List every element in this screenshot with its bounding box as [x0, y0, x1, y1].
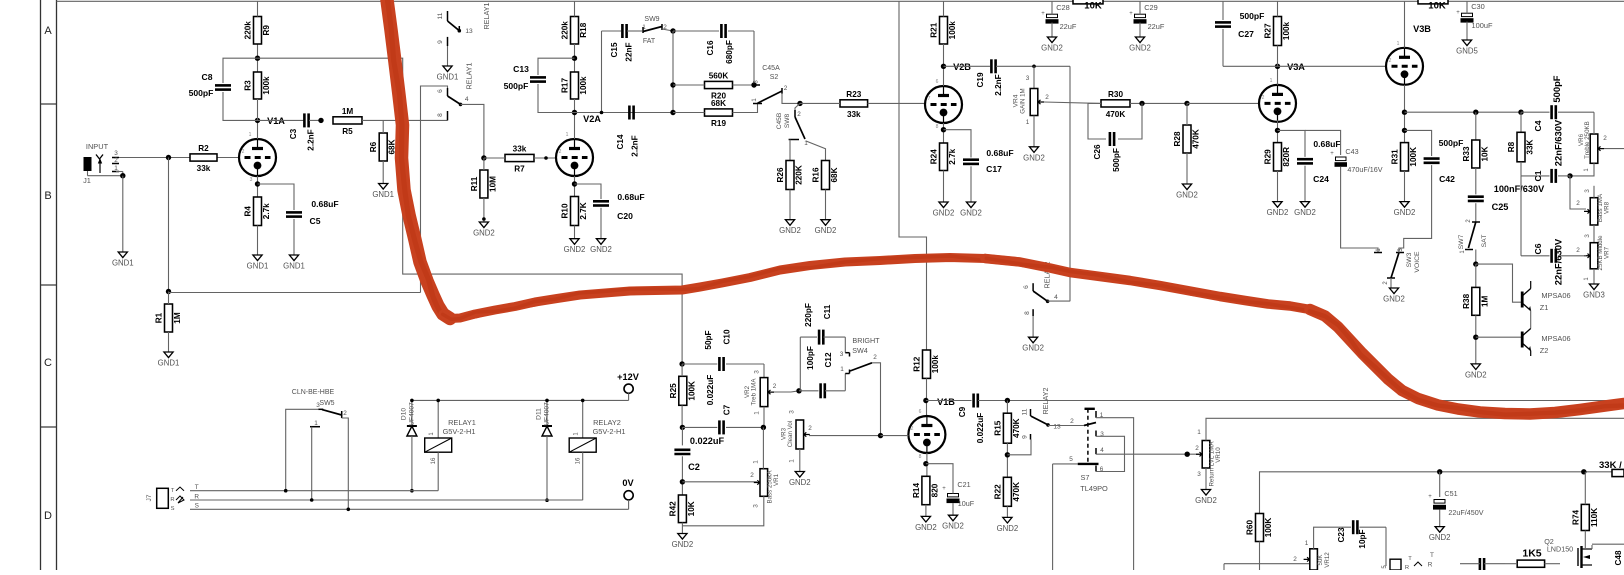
ground GND2 (R26) — [779, 220, 801, 236]
svg-text:0.68uF: 0.68uF — [986, 148, 1013, 158]
svg-text:VR10: VR10 — [1215, 447, 1222, 463]
ground GND3 (VR7) — [1583, 284, 1605, 300]
svg-text:500pF: 500pF — [1551, 75, 1562, 102]
svg-text:R74: R74 — [1571, 509, 1580, 524]
svg-text:10K: 10K — [1428, 1, 1446, 12]
wire C24 branch — [1278, 130, 1306, 157]
capacitor C7 0.022uF — [706, 375, 732, 435]
wire C42 down to SW3 — [1399, 165, 1432, 252]
svg-text:R1: R1 — [155, 312, 164, 323]
wire D11 top — [545, 399, 549, 426]
svg-text:R7: R7 — [514, 165, 525, 174]
wire R4 node — [257, 176, 259, 197]
svg-text:33k: 33k — [513, 145, 527, 154]
wire R17 bottom — [574, 99, 576, 113]
svg-text:J1: J1 — [83, 176, 91, 185]
row label D — [44, 510, 52, 522]
ground GND2 (R24) — [933, 202, 955, 218]
wire C13 bottom — [538, 84, 575, 113]
label RELAY1 (lower) — [465, 62, 474, 89]
ground GND1 (C5) — [283, 255, 305, 271]
ground GND2 (R14) — [915, 516, 937, 532]
svg-text:9: 9 — [437, 40, 444, 44]
resistor R22 470K — [993, 477, 1021, 506]
svg-text:GND1: GND1 — [247, 262, 269, 271]
svg-text:R29: R29 — [1264, 149, 1273, 164]
svg-text:16: 16 — [431, 457, 437, 464]
svg-text:C15: C15 — [610, 42, 619, 57]
svg-text:GND2: GND2 — [1267, 208, 1289, 217]
wire C25 to SW7 — [1475, 203, 1477, 222]
capacitor C16 680pF — [706, 24, 734, 64]
svg-text:Z2: Z2 — [1540, 346, 1549, 355]
svg-text:T: T — [1430, 552, 1434, 559]
capacitor C5 0.68uF — [286, 199, 339, 226]
junction V2B plate node — [941, 64, 946, 69]
svg-text:GND2: GND2 — [1041, 44, 1063, 53]
svg-text:GND2: GND2 — [1294, 208, 1316, 217]
svg-text:2: 2 — [1576, 200, 1580, 207]
junction R28 top — [1184, 101, 1189, 106]
svg-text:2: 2 — [1262, 95, 1265, 101]
junction V3B cath low — [1402, 128, 1407, 133]
wire FAT top line — [602, 30, 622, 32]
svg-text:2: 2 — [343, 410, 347, 417]
ground GND2 (relay2 pin8) — [1022, 337, 1044, 353]
ground GND1 (R4) — [247, 255, 269, 271]
svg-text:100k: 100k — [262, 76, 271, 95]
svg-text:10pF: 10pF — [1358, 529, 1367, 548]
svg-text:R33: R33 — [1462, 146, 1471, 161]
junction SW9 out — [670, 28, 675, 33]
svg-text:R31: R31 — [1391, 149, 1400, 164]
svg-text:3: 3 — [250, 177, 253, 183]
svg-text:16: 16 — [576, 457, 582, 464]
svg-text:1M: 1M — [342, 107, 354, 116]
svg-text:2: 2 — [773, 383, 777, 390]
wire R29 to gnd — [1277, 171, 1279, 202]
svg-text:SW5: SW5 — [319, 400, 334, 407]
switch SW3 VOICE — [1374, 248, 1421, 285]
wire VR3 wiper line — [809, 435, 881, 437]
svg-text:VR1: VR1 — [773, 473, 780, 486]
wire VR10 pin1 up — [1206, 418, 1624, 440]
wire R9 to rail — [257, 1, 259, 16]
junction R15/R22 — [1005, 452, 1010, 457]
tube V3B triode — [1386, 48, 1423, 85]
capacitor C42 500pF — [1424, 138, 1464, 184]
switch RELAY2 contact 6/4 — [1023, 283, 1070, 303]
transistor Z1 MPSA06 — [1522, 281, 1570, 312]
wire input node down — [168, 158, 170, 292]
svg-text:SW3: SW3 — [1406, 252, 1413, 267]
wire relay1 pin4 out — [461, 104, 484, 158]
svg-text:GND2: GND2 — [942, 522, 964, 531]
svg-text:J7: J7 — [146, 494, 153, 501]
svg-text:0V: 0V — [622, 478, 634, 488]
svg-text:SW9: SW9 — [644, 16, 659, 23]
wire bypass bottom run — [169, 292, 421, 294]
svg-text:CLN-BE-HBE: CLN-BE-HBE — [292, 389, 335, 396]
svg-text:1: 1 — [753, 460, 760, 464]
svg-text:T: T — [195, 484, 199, 491]
svg-text:4: 4 — [1054, 294, 1058, 301]
label V1B — [937, 397, 955, 407]
svg-text:UF4007: UF4007 — [409, 402, 416, 426]
svg-text:C21: C21 — [957, 480, 970, 489]
resistor R20 560K/R20 — [705, 72, 733, 101]
ground GND2 (C24) — [1294, 202, 1316, 218]
svg-text:110K: 110K — [1590, 508, 1599, 527]
wire C2 branch — [681, 427, 683, 445]
svg-text:R15: R15 — [993, 420, 1002, 435]
svg-text:S7: S7 — [1080, 473, 1089, 482]
label V2B pins — [928, 79, 939, 130]
label R70 (partial, bottom edge) — [1521, 569, 1540, 575]
svg-text:2: 2 — [242, 149, 245, 155]
switch SW9 FAT — [642, 16, 673, 45]
svg-text:11: 11 — [437, 12, 444, 19]
wire VR3 to gnd — [799, 449, 801, 472]
svg-text:VR8: VR8 — [1604, 201, 1611, 214]
svg-text:GND2: GND2 — [933, 209, 955, 218]
svg-text:10K: 10K — [687, 501, 696, 516]
svg-text:470K: 470K — [1012, 482, 1021, 502]
capacitor C17 0.68uF — [963, 148, 1014, 174]
ground GND2 (VR4) — [1023, 147, 1045, 163]
capacitor C13 500pF — [504, 64, 546, 91]
wire input signal — [119, 157, 239, 159]
svg-text:5: 5 — [1069, 456, 1073, 463]
svg-text:11: 11 — [1022, 408, 1029, 415]
border row separator B/C — [41, 284, 57, 286]
svg-text:R25: R25 — [669, 383, 678, 398]
junction R30 out — [1139, 101, 1144, 106]
svg-text:500pF: 500pF — [1240, 11, 1265, 21]
svg-text:560K: 560K — [709, 72, 729, 81]
tube V2A triode — [556, 139, 593, 176]
ground GND2 (SW3) — [1383, 288, 1405, 304]
label RELAY2 (upper) — [1041, 387, 1050, 414]
ground GND1 (R1) — [158, 352, 180, 368]
junction R11 bottom — [482, 217, 486, 221]
wire R74 leads — [1584, 472, 1586, 545]
potentiometer VR4 GAIN 1M — [1013, 75, 1050, 126]
connector J5 jack (bottom) — [1382, 552, 1434, 571]
svg-text:+: + — [1041, 11, 1045, 17]
resistor R11 10M — [470, 170, 498, 198]
junction R25 bottom — [680, 425, 685, 430]
svg-text:C17: C17 — [986, 164, 1002, 174]
svg-text:220k: 220k — [244, 21, 253, 40]
switch SW5 CLN-BE-HBE — [292, 389, 347, 427]
svg-text:100uF: 100uF — [1472, 21, 1493, 30]
svg-text:GND2: GND2 — [1022, 344, 1044, 353]
wire V3A anode line — [1223, 65, 1386, 67]
resistor R18 220k — [561, 17, 589, 45]
junction tone mid node — [1567, 173, 1572, 178]
wire R11 leads — [483, 158, 485, 222]
svg-text:100k: 100k — [1282, 21, 1291, 40]
svg-text:B: B — [44, 190, 51, 202]
svg-text:C20: C20 — [617, 211, 633, 221]
svg-text:C8: C8 — [202, 72, 213, 82]
wire R31 to gnd — [1404, 171, 1406, 202]
capacitor C26 500pF — [1093, 132, 1121, 172]
switch RELAY2 pin 8 — [1024, 309, 1033, 337]
wire R5 to relay pin8 — [362, 119, 448, 121]
wire coil2 bottom — [582, 452, 584, 500]
wire VR2 top — [754, 364, 765, 378]
svg-text:D: D — [44, 510, 52, 522]
wire B+ rail — [57, 0, 1624, 2]
capacitor C6 22nF/630V — [1533, 238, 1564, 285]
svg-text:D10: D10 — [401, 408, 408, 420]
resistor R24 2.7k — [930, 143, 958, 171]
switch RELAY1 pin 8 — [437, 111, 448, 120]
wire C3 to R5 — [309, 119, 321, 121]
wire +12V rail — [412, 393, 629, 400]
border frame left outer line — [40, 0, 42, 570]
diode D10 UF4007 — [401, 402, 417, 436]
svg-text:2: 2 — [750, 472, 754, 479]
junction V2A grid — [544, 156, 548, 160]
resistor R4 2.7k — [244, 197, 272, 226]
capacitor C10 50pF — [704, 329, 732, 371]
svg-text:C3: C3 — [289, 128, 298, 139]
svg-text:33K /: 33K / — [1599, 460, 1622, 471]
wire coil1 bottom — [437, 452, 439, 491]
ground GND2 (VR10) — [1195, 490, 1217, 506]
svg-text:0.68uF: 0.68uF — [1313, 139, 1340, 149]
junction V2A plate node — [572, 110, 577, 115]
border row separator A/B — [41, 103, 57, 105]
potentiometer VR10 Return LVL 1MA — [1195, 429, 1222, 487]
wire SW3 to gnd — [1390, 278, 1392, 288]
switch SW8 C45B — [776, 103, 826, 160]
svg-text:R60: R60 — [1246, 520, 1255, 535]
capacitor C30 100uF — [1456, 1, 1493, 40]
svg-text:8: 8 — [437, 113, 444, 117]
wire to Z2 base — [1476, 336, 1521, 338]
junction pin4 line — [1185, 452, 1190, 457]
label V1A pins — [242, 132, 253, 183]
svg-text:GND2: GND2 — [1023, 153, 1045, 162]
resistor R19 68K/R19 — [705, 99, 733, 128]
junction input/R1 — [166, 155, 171, 160]
svg-text:GND1: GND1 — [112, 259, 134, 268]
svg-text:GND2: GND2 — [1429, 533, 1451, 542]
potentiometer VR7 25KB Middle — [1584, 235, 1611, 271]
svg-text:10uF: 10uF — [958, 499, 975, 508]
label C1 rating — [1553, 119, 1564, 166]
svg-text:+12V: +12V — [617, 372, 640, 382]
svg-text:GND2: GND2 — [590, 245, 612, 254]
svg-text:100K: 100K — [687, 381, 696, 401]
wire R38 bottom — [1475, 315, 1477, 364]
wire C11 right — [824, 337, 846, 353]
wire R33 lead — [1475, 112, 1477, 140]
svg-text:C10: C10 — [723, 329, 732, 344]
capacitor C11 220pF — [804, 303, 832, 344]
svg-text:R28: R28 — [1173, 131, 1182, 146]
wire C19 out — [996, 65, 1070, 67]
svg-text:UF4007: UF4007 — [544, 402, 551, 426]
svg-text:RELAY2: RELAY2 — [593, 418, 621, 427]
svg-text:R30: R30 — [1108, 90, 1123, 99]
wire VR2 pin1 down — [763, 407, 765, 428]
svg-text:+: + — [1330, 151, 1334, 157]
relay RELAY1 coil G5V-2-H1 — [425, 418, 476, 464]
wire C21 to gnd — [952, 503, 954, 515]
junction C51 tap — [1437, 469, 1442, 474]
wire VR10 to gnd — [1205, 468, 1207, 490]
svg-text:GND2: GND2 — [789, 478, 811, 487]
resistor R33 10K — [1462, 140, 1490, 168]
svg-text:100k: 100k — [948, 21, 957, 40]
capacitor C15 22nF — [610, 24, 634, 62]
svg-text:C45B: C45B — [776, 112, 783, 129]
svg-text:500pF: 500pF — [504, 81, 529, 91]
ground GND2 (R22) — [997, 517, 1019, 533]
wire R24 to gnd — [943, 171, 945, 203]
resistor R1 1M — [155, 304, 183, 332]
wire C24 to gnd — [1304, 166, 1306, 202]
svg-text:C5: C5 — [310, 216, 321, 226]
svg-text:0.022uF: 0.022uF — [976, 413, 985, 444]
wire C27 branch — [1222, 1, 1224, 66]
svg-text:C45A: C45A — [762, 65, 780, 72]
label V2B — [953, 62, 971, 72]
svg-text:100nF/630V: 100nF/630V — [1494, 184, 1545, 194]
svg-text:68K: 68K — [830, 167, 839, 182]
ground GND2 (R31) — [1394, 202, 1416, 218]
wire VR4 wiper out — [1044, 102, 1101, 103]
svg-text:VOICE: VOICE — [1414, 251, 1421, 273]
wire S7 pin5 — [1053, 464, 1078, 570]
svg-text:4: 4 — [465, 96, 469, 103]
junction R15 top — [1005, 398, 1010, 403]
junction jack pin1 — [120, 173, 125, 178]
wire plate to C19 — [944, 65, 991, 67]
capacitor C25 100nF/630V — [1468, 184, 1545, 212]
wire R23 to V2B grid — [868, 102, 925, 104]
svg-text:C43: C43 — [1345, 147, 1358, 156]
svg-text:MPSA06: MPSA06 — [1541, 291, 1570, 300]
svg-text:GND2: GND2 — [997, 524, 1019, 533]
svg-text:C4: C4 — [1533, 120, 1543, 131]
svg-text:GND2: GND2 — [564, 245, 586, 254]
svg-text:V3B: V3B — [1413, 24, 1431, 34]
svg-text:R6: R6 — [369, 141, 378, 152]
switch S7 TL49PO — [1069, 409, 1108, 493]
capacitor C9 0.022uF — [958, 394, 985, 444]
terminal 0V — [622, 478, 634, 500]
junction R1 top — [166, 289, 171, 294]
switch RELAY1 contact 11/13 — [437, 11, 473, 35]
wire 0V to S bus — [628, 500, 630, 509]
switch RELAY1 pin 9 to gnd — [437, 37, 448, 66]
capacitor C24 0.68uF — [1297, 139, 1341, 184]
svg-text:RELAY1: RELAY1 — [465, 62, 474, 89]
svg-text:1: 1 — [1270, 78, 1273, 84]
svg-text:2: 2 — [784, 85, 788, 92]
svg-text:C23: C23 — [1337, 527, 1346, 542]
svg-text:RELAY1: RELAY1 — [482, 2, 491, 29]
border frame left inner line — [56, 0, 58, 570]
svg-text:C1: C1 — [1533, 170, 1543, 181]
ground GND2 (C17) — [960, 202, 982, 218]
wire FAT net — [673, 31, 754, 113]
svg-text:50pF: 50pF — [704, 330, 713, 349]
label V3A — [1287, 62, 1305, 72]
resistor R70 1K5 — [1505, 548, 1560, 568]
wire VR4 bottom — [1033, 116, 1035, 147]
wire VR1 pin3 down — [682, 496, 763, 526]
svg-text:C30: C30 — [1471, 2, 1485, 11]
svg-text:C12: C12 — [824, 352, 833, 367]
ground GND2 (R42) — [672, 534, 694, 550]
wire R60 bottom — [1259, 542, 1261, 571]
junction V2B cathode — [941, 127, 946, 132]
svg-text:220K: 220K — [795, 165, 804, 185]
svg-text:SW4: SW4 — [852, 346, 868, 355]
svg-text:2.7K: 2.7K — [579, 202, 588, 219]
junction R19 left — [670, 110, 675, 115]
capacitor C43 470uF/16V — [1330, 147, 1383, 174]
svg-text:S: S — [195, 503, 199, 510]
svg-text:R3: R3 — [244, 80, 253, 91]
svg-text:R42: R42 — [668, 501, 677, 516]
svg-text:1: 1 — [789, 459, 796, 463]
junction V3B cath out — [1402, 110, 1407, 115]
junction V1A plate node — [255, 118, 260, 123]
wire V1B plate line — [926, 400, 972, 402]
resistor R8 33K — [1507, 132, 1535, 162]
svg-text:VR7: VR7 — [1604, 246, 1611, 259]
capacitor C3 2.2nF — [289, 113, 316, 150]
resistor R17 100k — [561, 72, 589, 99]
junction V2A cathode — [572, 181, 577, 186]
wire V1A plate up — [257, 120, 259, 139]
svg-text:R18: R18 — [579, 22, 588, 37]
wire V2B cathode — [943, 123, 945, 143]
wire SW5 pin3 to T — [286, 409, 319, 490]
wire Z1 emitter to Z2 collector — [1530, 311, 1532, 329]
svg-text:R24: R24 — [930, 149, 939, 164]
svg-text:100pF: 100pF — [806, 346, 815, 370]
wire VR2 wiper out — [774, 391, 799, 392]
label V2A — [583, 114, 601, 124]
svg-text:50K: 50K — [1317, 554, 1324, 566]
junction V3A cathode — [1275, 128, 1280, 133]
svg-text:2: 2 — [1389, 58, 1392, 64]
svg-text:TL49PO: TL49PO — [1080, 484, 1108, 493]
svg-text:10K: 10K — [1480, 146, 1489, 161]
svg-text:8: 8 — [919, 454, 922, 460]
resistor R42 10K — [668, 495, 696, 523]
wire D10 top — [410, 399, 414, 426]
svg-text:+: + — [942, 486, 946, 492]
svg-text:R38: R38 — [1462, 293, 1471, 308]
diode D11 UF4007 — [536, 402, 553, 436]
ground GND2 (R29) — [1267, 202, 1289, 218]
svg-text:Z1: Z1 — [1540, 303, 1549, 312]
wire R4 to gnd — [257, 226, 259, 256]
junction R18/R17 node — [572, 56, 577, 61]
junction VR3/SW4 — [878, 433, 883, 438]
resistor R21 100k — [930, 17, 958, 45]
